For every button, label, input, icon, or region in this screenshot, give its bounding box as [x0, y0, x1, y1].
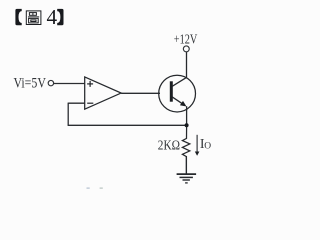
svg-text:O: O	[204, 142, 211, 152]
op-amp plus sign	[87, 81, 93, 87]
wire collector vertical	[186, 52, 188, 78]
svg-text:+12V: +12V	[174, 31, 198, 46]
wire op-amp output to base	[121, 92, 160, 94]
transistor collector diagonal	[172, 77, 186, 86]
op-amp minus sign	[87, 102, 93, 104]
svg-text:Vi=5V: Vi=5V	[14, 75, 47, 91]
current arrow Io	[196, 135, 198, 152]
svg-text:4: 4	[47, 5, 58, 29]
title glyph 圖 (figure)	[26, 11, 41, 25]
wire feedback vertical	[67, 103, 69, 126]
wire emitter vertical	[186, 106, 188, 125]
emitter arrowhead	[180, 101, 187, 107]
svg-text:2KΩ: 2KΩ	[158, 138, 180, 153]
+12V terminal circle	[183, 46, 189, 52]
input terminal circle	[48, 80, 53, 85]
wire minus input	[68, 102, 85, 104]
title bracket 】	[57, 9, 63, 25]
ground	[177, 156, 197, 183]
transistor Q1 circle	[159, 75, 196, 112]
resistor R1 2KΩ	[182, 127, 189, 173]
wire input to op-amp	[54, 83, 85, 85]
op-amp U1	[85, 77, 121, 109]
stray bottom-edge text remnants	[87, 187, 90, 189]
transistor base bar	[170, 81, 173, 101]
transistor emitter diagonal with arrow	[172, 97, 184, 105]
wire feedback bottom horizontal	[68, 124, 187, 126]
junction node dot	[185, 123, 189, 127]
title bracket 【	[15, 9, 21, 25]
